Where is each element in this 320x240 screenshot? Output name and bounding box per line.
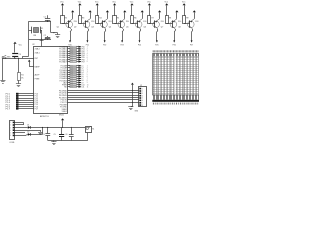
wire collector down / net P27: [192, 29, 194, 31]
svg-text:U2: U2: [32, 44, 34, 46]
svg-text:R3: R3: [82, 18, 84, 20]
resistor R4: [96, 16, 99, 24]
ground (R1): [16, 83, 21, 85]
svg-text:S1: S1: [92, 128, 94, 130]
resistor R3: [79, 16, 82, 24]
wire collector down / net P24: [140, 29, 142, 31]
wire RST rail: [3, 58, 34, 60]
transistor Q8 (PNP): [187, 21, 194, 28]
wire J1 pin 6 to D2: [15, 135, 27, 137]
svg-text:10: 10: [87, 84, 89, 86]
svg-text:SW1: SW1: [7, 56, 11, 58]
resistor R7: [148, 16, 151, 24]
resistor R21: [68, 72, 70, 74]
VCC power symbol (power rail): [61, 118, 64, 120]
VCC power symbol (emitter 3): [106, 10, 109, 12]
resistor R2: [61, 16, 65, 24]
svg-text:R6: R6: [134, 18, 136, 20]
wire caps to ground: [50, 21, 52, 32]
svg-text:470: 470: [70, 55, 72, 57]
wire collector down / net P26: [175, 29, 177, 31]
svg-text:8550: 8550: [74, 21, 77, 23]
VCC power symbol (emitter 1): [71, 10, 74, 12]
EA pin VCC arrow: [28, 60, 31, 62]
matrix middle gap: [174, 54, 175, 95]
svg-text:Q5: Q5: [126, 27, 128, 29]
svg-text:P21: P21: [86, 45, 89, 47]
ground rail wire: [48, 140, 88, 142]
svg-text:8550: 8550: [178, 21, 181, 23]
ground (switch): [0, 80, 5, 82]
svg-text:C3: C3: [19, 54, 21, 56]
svg-text:D2: D2: [27, 132, 29, 134]
wire P1.3: [18, 100, 34, 102]
LED matrix DS1 body: [153, 54, 200, 96]
transistor Q7 (PNP): [170, 21, 177, 28]
resistor R28: [68, 86, 70, 88]
svg-text:Q1: Q1: [57, 27, 59, 29]
wire collector down / net P23: [123, 29, 125, 31]
wire P1.6: [18, 106, 34, 108]
wire resistor to base: [79, 22, 81, 25]
svg-text:470: 470: [70, 57, 72, 59]
VCC power symbol (emitter 4): [123, 10, 126, 12]
svg-text:P25: P25: [155, 45, 158, 47]
resistor R10: [68, 46, 70, 48]
svg-text:RST: RST: [35, 58, 38, 60]
VCC power symbol (emitter 2): [89, 10, 92, 12]
VCC power symbol (J2): [131, 83, 134, 85]
wire J1 pin 3 to D1: [15, 127, 28, 129]
svg-text:P0.7/AD7: P0.7/AD7: [59, 60, 67, 63]
VCC power symbol (reset): [13, 42, 16, 44]
wire P1.7: [18, 108, 34, 110]
resistor R15: [68, 57, 70, 59]
svg-text:P24: P24: [138, 45, 141, 47]
wire P1.0: [18, 93, 34, 95]
svg-text:470: 470: [70, 48, 72, 50]
wire resistor to base: [114, 22, 116, 25]
svg-text:C5: C5: [54, 134, 56, 136]
svg-text:470: 470: [70, 86, 72, 88]
transistor Q2 (PNP): [83, 21, 90, 28]
transistor Q1 (PNP): [66, 21, 73, 28]
wire resistor to base: [62, 22, 64, 25]
svg-text:Q6: Q6: [144, 27, 146, 29]
svg-text:X2: X2: [44, 39, 46, 41]
diode D2: [28, 133, 31, 136]
connector J1: [10, 121, 15, 140]
switch S2: [86, 127, 92, 133]
wire left vertical: [28, 21, 30, 39]
svg-text:EA/VP: EA/VP: [35, 65, 41, 68]
svg-text:L11: L11: [82, 87, 85, 89]
svg-text:470: 470: [70, 82, 72, 84]
wire J1 pin 5 stub: [15, 132, 26, 134]
pushbutton S1: [2, 57, 4, 59]
svg-text:C4: C4: [43, 134, 45, 136]
svg-text:470: 470: [70, 74, 72, 76]
resistor R13: [68, 53, 70, 55]
svg-text:470: 470: [70, 76, 72, 78]
wire D1 to power rail: [31, 127, 63, 129]
svg-text:D1: D1: [27, 125, 29, 127]
crystal X1: [34, 28, 39, 33]
svg-text:Q8: Q8: [178, 27, 180, 29]
svg-text:P22: P22: [103, 45, 106, 47]
svg-text:470: 470: [70, 51, 72, 53]
resistor R26: [68, 82, 70, 84]
svg-text:470: 470: [70, 53, 72, 55]
resistor R19: [68, 67, 70, 69]
svg-text:8550: 8550: [126, 21, 129, 23]
svg-text:AT89C51: AT89C51: [40, 115, 49, 118]
matrix header band: [153, 53, 155, 56]
resistor R27: [68, 84, 70, 86]
wire switch to ground: [2, 58, 4, 80]
wire XTAL1 to MCU top pin: [41, 39, 43, 46]
transistor Q4 (PNP): [118, 21, 125, 28]
transistor Q3 (PNP): [101, 21, 108, 28]
diode D1: [28, 126, 31, 129]
wire P1.1: [18, 95, 34, 97]
wire resistor to base: [149, 22, 151, 25]
LED matrix bottom pins: [153, 95, 155, 100]
resistor R23: [68, 76, 70, 78]
wire resistor to base: [97, 22, 99, 25]
wire collector down / net P20: [71, 29, 73, 31]
svg-text:470: 470: [70, 61, 72, 63]
svg-text:470: 470: [70, 84, 72, 86]
resistor R1: [18, 73, 21, 81]
wire P1.2: [18, 98, 34, 100]
svg-text:Q2: Q2: [74, 27, 76, 29]
resistor R11: [68, 48, 70, 50]
svg-text:89C51: 89C51: [59, 115, 64, 117]
wire collector down / net P25: [157, 29, 159, 31]
wire J1 pin 1 stub: [15, 122, 24, 124]
wire crystal to RST area: [28, 39, 30, 56]
capacitor C3 (electrolytic): [12, 53, 18, 55]
svg-text:P1.7: P1.7: [35, 108, 39, 110]
resistor R6: [131, 16, 134, 24]
svg-text:C2: C2: [44, 35, 46, 37]
resistor R17: [68, 61, 70, 63]
svg-text:P07: P07: [82, 61, 85, 63]
VCC power symbol (emitter 7): [175, 10, 178, 12]
svg-text:C1: C1: [44, 16, 46, 18]
svg-text:R9: R9: [186, 18, 188, 20]
resistor R14: [68, 55, 70, 57]
ground (J1 pin 4): [40, 130, 42, 132]
wires MCU to J2: [68, 90, 140, 92]
wire switch to ground rail: [87, 133, 89, 141]
svg-text:R5: R5: [117, 18, 119, 20]
svg-text:470: 470: [70, 80, 72, 82]
svg-text:P26: P26: [173, 45, 176, 47]
svg-text:XTAL1: XTAL1: [35, 52, 40, 55]
wire J1 pin 4 to ground: [15, 130, 41, 132]
resistor R20: [68, 70, 70, 72]
svg-text:P23: P23: [120, 45, 123, 47]
wire collector down / net P21: [88, 29, 90, 31]
LED matrix DS1 top pin labels: [152, 50, 155, 52]
LED matrix bottom labels: [153, 103, 154, 105]
resistor R12: [68, 51, 70, 53]
svg-text:Q4: Q4: [109, 27, 111, 29]
svg-text:8550: 8550: [91, 21, 94, 23]
svg-text:PSEN: PSEN: [35, 79, 40, 81]
svg-text:CON6: CON6: [9, 142, 14, 144]
svg-text:XTAL1: XTAL1: [62, 110, 67, 113]
resistor R18: [68, 65, 70, 67]
svg-text:11: 11: [87, 86, 89, 88]
svg-text:470: 470: [70, 59, 72, 61]
power rail wire: [63, 127, 86, 129]
resistor R5: [113, 16, 117, 24]
wire resistor to base: [166, 22, 168, 25]
svg-text:470: 470: [70, 70, 72, 72]
LED matrix bottom bar: [152, 100, 199, 102]
svg-text:Q7: Q7: [161, 27, 163, 29]
svg-text:R2: R2: [65, 18, 67, 20]
wire P1.5: [18, 104, 34, 106]
svg-text:470: 470: [70, 65, 72, 67]
wire top rail: [29, 21, 51, 23]
wire D2 to rail: [31, 134, 43, 136]
svg-text:R1: R1: [21, 74, 23, 76]
svg-text:C6: C6: [65, 134, 67, 136]
VCC power symbol (emitter 5): [141, 10, 144, 12]
svg-text:Q3: Q3: [91, 27, 93, 29]
wire resistor to base: [184, 22, 186, 25]
resistor R24: [68, 78, 70, 80]
svg-text:470: 470: [70, 72, 72, 74]
ground (crystal): [57, 33, 59, 35]
svg-text:R7: R7: [152, 18, 154, 20]
wire RST to R1: [18, 58, 20, 72]
ground (power): [53, 141, 55, 142]
svg-text:8550: 8550: [143, 21, 146, 23]
VCC power symbol (emitter 8): [193, 10, 196, 12]
resistor R9: [183, 16, 186, 24]
svg-text:470: 470: [70, 78, 72, 80]
wire resistor to base: [131, 22, 133, 25]
svg-text:XTAL2: XTAL2: [35, 47, 40, 50]
VCC power symbol (emitter 6): [158, 10, 161, 12]
svg-text:P27: P27: [190, 45, 193, 47]
wire bottom rail: [29, 39, 51, 41]
svg-text:470: 470: [70, 46, 72, 48]
svg-text:R8: R8: [169, 18, 171, 20]
resistor R22: [68, 74, 70, 76]
svg-text:R4: R4: [99, 18, 101, 20]
svg-text:8550: 8550: [195, 21, 198, 23]
resistor R8: [166, 16, 169, 24]
svg-text:8550: 8550: [161, 21, 164, 23]
svg-text:X1: X1: [41, 28, 43, 30]
svg-text:8550: 8550: [109, 21, 112, 23]
wire J2 VCC/GND vertical: [132, 91, 134, 107]
wire P1.4: [18, 102, 34, 104]
ground (J2): [131, 106, 133, 108]
transistor Q5 (PNP): [135, 21, 142, 28]
resistor R16: [68, 59, 70, 61]
transistor Q6 (PNP): [153, 21, 160, 28]
wire J1 pin 2 stub: [15, 124, 24, 126]
resistor R25: [68, 80, 70, 82]
wire collector down / net P22: [105, 29, 107, 31]
svg-text:470: 470: [70, 67, 72, 69]
